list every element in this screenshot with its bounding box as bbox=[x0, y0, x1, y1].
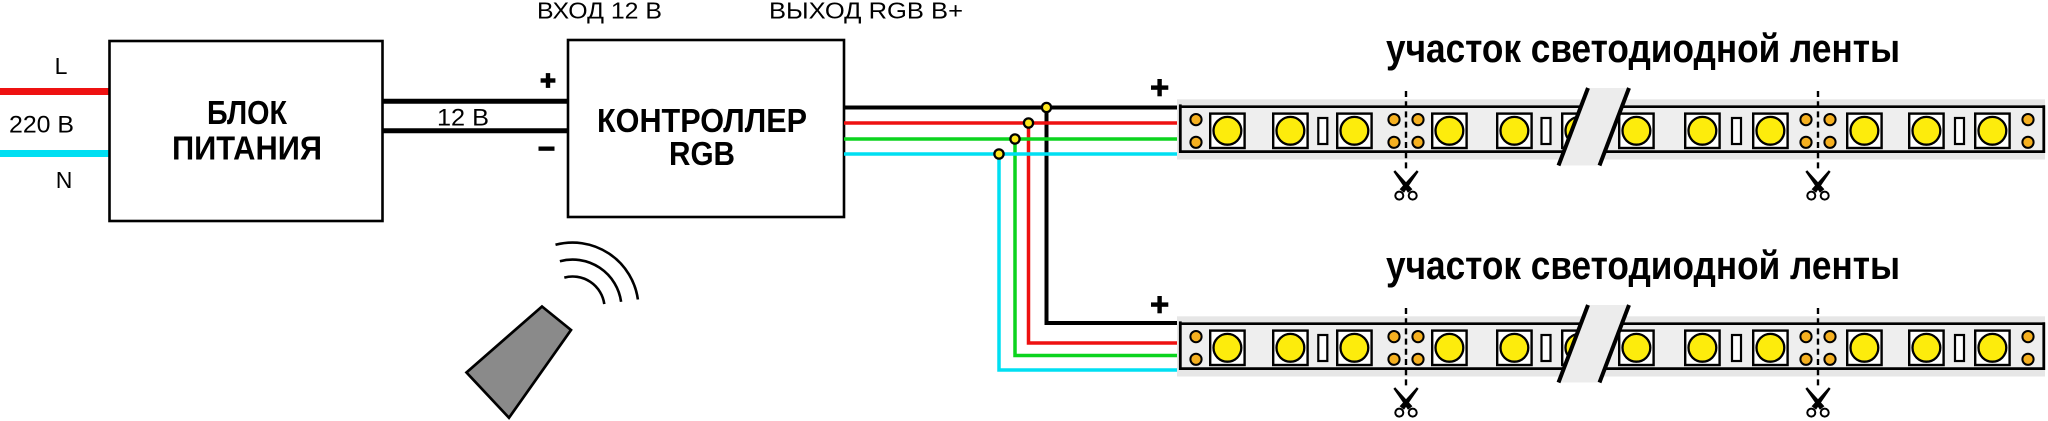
wire V- (black) controller to strip 1 bbox=[844, 106, 1181, 110]
solder pads before cut point 2 bbox=[1800, 114, 1811, 148]
wire B branch (cyan) to strip 2 bbox=[999, 154, 1181, 370]
LED module 6 (partly hidden by break) bbox=[1562, 114, 1596, 148]
wire G (green) controller to strip 1 bbox=[844, 137, 1181, 141]
junction node on red wire bbox=[1024, 118, 1033, 127]
svg-text:L: L bbox=[55, 53, 68, 79]
label minus (controller input) bbox=[539, 147, 555, 151]
LED module 10 bbox=[1847, 114, 1881, 148]
IR remote signal arc 3 (outer) bbox=[556, 243, 638, 300]
wire 12V plus (power supply to controller) bbox=[383, 99, 569, 104]
svg-text:БЛОК: БЛОК bbox=[207, 94, 288, 131]
strip bottom border bbox=[1179, 150, 2045, 153]
svg-text:N: N bbox=[56, 167, 73, 193]
LED strip section 2 (участок светодиодной ленты, same layout as strip 1) bbox=[1151, 244, 2045, 417]
label plus (strip input) bbox=[1151, 79, 1168, 96]
scissors at cut point 1 bbox=[1393, 170, 1418, 199]
cut line 1 (dashed) bbox=[1405, 91, 1407, 172]
LED module 11 bbox=[1909, 114, 1943, 148]
svg-text:RGB: RGB bbox=[669, 135, 735, 172]
resistor 1 bbox=[1318, 118, 1327, 144]
junction node on green wire bbox=[1010, 134, 1019, 143]
LED module 4 bbox=[1432, 114, 1466, 148]
LED module 2 bbox=[1273, 114, 1307, 148]
strip left end border bbox=[1179, 104, 1182, 153]
wire V- branch (black) to strip 2 bbox=[1047, 108, 1182, 324]
resistor 3 bbox=[1732, 118, 1741, 144]
scissors at cut point 2 bbox=[1805, 170, 1830, 199]
solder pads after cut point 1 bbox=[1412, 114, 1423, 148]
IR remote signal arc 1 (inner) bbox=[564, 277, 604, 305]
LED module 12 bbox=[1975, 114, 2009, 148]
LED strip section 1 (участок светодиодной ленты) bbox=[1151, 27, 2045, 200]
strip break mark (omitted length) bbox=[1559, 88, 1630, 166]
svg-text:ПИТАНИЯ: ПИТАНИЯ bbox=[172, 130, 322, 167]
svg-text:12 В: 12 В bbox=[437, 105, 489, 132]
label plus (controller input) bbox=[541, 73, 556, 88]
cut line 2 (dashed) bbox=[1817, 91, 1819, 172]
wire L (220V live, red) bbox=[0, 88, 110, 95]
svg-text:участок светодиодной ленты: участок светодиодной ленты bbox=[1386, 27, 1900, 71]
power supply box (БЛОК ПИТАНИЯ) bbox=[110, 41, 383, 221]
junction node on cyan wire bbox=[994, 149, 1003, 158]
wire 12V minus (power supply to controller) bbox=[383, 128, 569, 133]
strip body band bbox=[1177, 99, 2045, 159]
IR remote control body bbox=[467, 307, 572, 418]
svg-text:ВХОД 12 В: ВХОД 12 В bbox=[537, 0, 662, 24]
LED module 8 bbox=[1685, 114, 1719, 148]
junction node on black wire bbox=[1042, 103, 1051, 112]
resistor 4 bbox=[1955, 118, 1964, 144]
solder pads before cut point 1 bbox=[1388, 114, 1399, 148]
wire R (red) controller to strip 1 bbox=[844, 121, 1181, 125]
wire N (220V neutral, cyan) bbox=[0, 150, 110, 157]
wire G branch (green) to strip 2 bbox=[1015, 139, 1181, 356]
LED module 3 bbox=[1337, 114, 1371, 148]
svg-text:КОНТРОЛЛЕР: КОНТРОЛЛЕР bbox=[597, 102, 807, 139]
strip top border bbox=[1179, 105, 2045, 108]
LED module 7 (partly hidden by break) bbox=[1619, 114, 1653, 148]
controller box (КОНТРОЛЛЕР RGB) bbox=[568, 40, 844, 217]
resistor 2 bbox=[1542, 118, 1551, 144]
LED module 5 bbox=[1497, 114, 1531, 148]
LED module 9 bbox=[1753, 114, 1787, 148]
solder pads at strip end bbox=[2022, 114, 2033, 148]
solder pads after cut point 2 bbox=[1824, 114, 1835, 148]
solder pads at strip start bbox=[1190, 114, 1201, 148]
svg-text:ВЫХОД RGB B+: ВЫХОД RGB B+ bbox=[769, 0, 963, 24]
LED module 1 bbox=[1210, 114, 1244, 148]
svg-text:220 В: 220 В bbox=[9, 111, 74, 138]
strip right end border bbox=[2042, 105, 2045, 153]
strip inner area bbox=[1179, 107, 2045, 151]
wire R branch (red) to strip 2 bbox=[1029, 123, 1182, 343]
IR remote signal arc 2 (middle) bbox=[560, 260, 621, 302]
wire B (cyan) controller to strip 1 bbox=[844, 152, 1181, 156]
